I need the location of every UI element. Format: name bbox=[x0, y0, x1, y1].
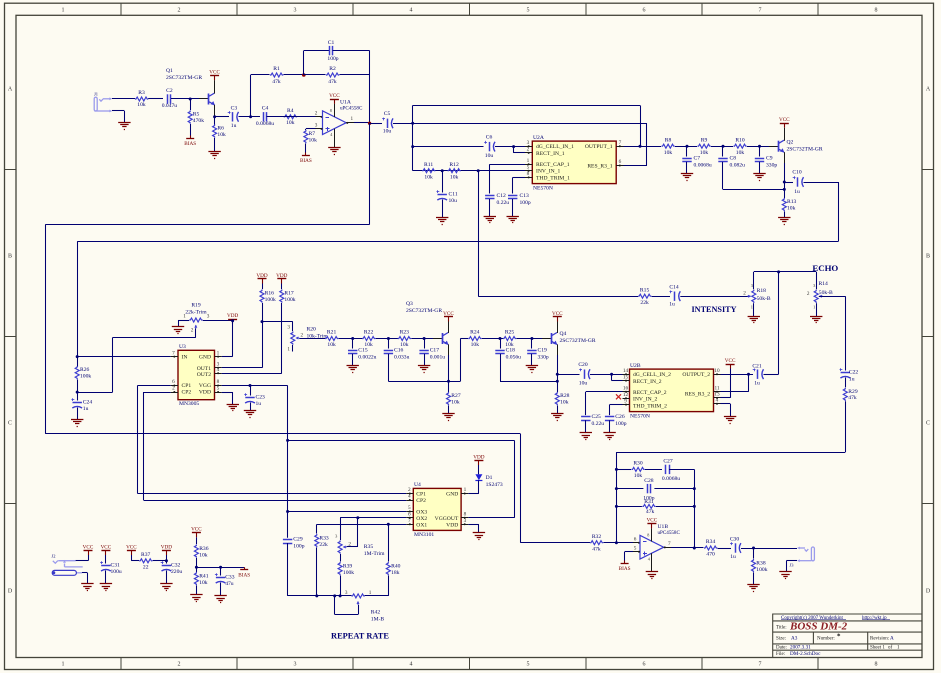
wire VGG to VGGOUT return bbox=[222, 385, 288, 387]
svg-text:10k: 10k bbox=[634, 473, 643, 479]
svg-text:C25: C25 bbox=[592, 414, 602, 420]
resistor R5 bbox=[190, 99, 192, 110]
svg-text:2: 2 bbox=[172, 386, 175, 392]
wire jack sleeve to ground bbox=[786, 560, 797, 562]
wire pin3 bbox=[306, 128, 316, 130]
wire bbox=[753, 272, 755, 289]
svg-text:8: 8 bbox=[527, 171, 530, 177]
wire R24 row corner bbox=[460, 339, 462, 382]
svg-text:R7: R7 bbox=[309, 131, 316, 137]
wire bbox=[376, 338, 398, 340]
svg-text:330p: 330p bbox=[766, 163, 777, 169]
svg-text:10k: 10k bbox=[327, 342, 336, 348]
wire bbox=[680, 296, 748, 298]
svg-text:1u: 1u bbox=[754, 380, 760, 386]
ground bbox=[190, 594, 202, 596]
svg-text:VGG: VGG bbox=[199, 383, 211, 389]
svg-text:U1A: U1A bbox=[340, 99, 351, 105]
svg-text:2: 2 bbox=[807, 291, 810, 297]
capacitor C29 bbox=[283, 539, 292, 541]
wire pin6 riser bbox=[624, 165, 648, 167]
svg-text:0.22u: 0.22u bbox=[592, 421, 605, 427]
wire to pins 3,2 bbox=[495, 146, 525, 148]
svg-text:1: 1 bbox=[62, 662, 65, 668]
svg-text:IN: IN bbox=[182, 355, 188, 361]
capacitor C22 bbox=[841, 372, 850, 374]
wire bbox=[112, 110, 124, 112]
svg-text:J2: J2 bbox=[51, 554, 55, 559]
wire IN row bbox=[77, 356, 171, 358]
svg-text:RECT_IN_1: RECT_IN_1 bbox=[536, 151, 565, 157]
capacitor C26 bbox=[605, 416, 614, 418]
svg-text:4: 4 bbox=[410, 662, 413, 668]
capacitor C9 bbox=[759, 146, 761, 156]
resistor R10 bbox=[733, 144, 746, 148]
capacitor C18 bbox=[500, 339, 502, 349]
svg-text:R30: R30 bbox=[633, 461, 643, 467]
svg-text:0.0068u: 0.0068u bbox=[256, 121, 274, 127]
ground bbox=[418, 365, 430, 367]
wire CP2 run bbox=[144, 392, 171, 394]
svg-text:R38: R38 bbox=[756, 561, 766, 567]
wire bbox=[148, 98, 163, 100]
svg-text:220u: 220u bbox=[171, 569, 182, 575]
wire R19 wiper run bbox=[195, 329, 197, 338]
svg-text:C12: C12 bbox=[497, 193, 507, 199]
ground bbox=[436, 217, 448, 219]
resistor R21 bbox=[325, 337, 338, 341]
svg-text:2: 2 bbox=[315, 111, 318, 117]
wire bbox=[652, 296, 670, 298]
ground bbox=[724, 416, 736, 418]
svg-text:5: 5 bbox=[527, 164, 530, 170]
svg-text:2: 2 bbox=[527, 147, 530, 153]
svg-text:CP2: CP2 bbox=[182, 390, 192, 396]
svg-text:22: 22 bbox=[143, 565, 149, 571]
svg-text:R8: R8 bbox=[665, 137, 672, 143]
svg-text:22k: 22k bbox=[640, 300, 649, 306]
svg-text:100u: 100u bbox=[111, 569, 122, 575]
wire bbox=[741, 548, 797, 550]
wire bbox=[214, 138, 216, 152]
resistor R11 bbox=[422, 169, 435, 173]
pin 4 bbox=[714, 403, 721, 405]
svg-text:R22: R22 bbox=[364, 330, 374, 336]
capacitor C12 bbox=[485, 195, 494, 197]
svg-text:1: 1 bbox=[813, 305, 815, 310]
capacitor C19 bbox=[531, 339, 533, 349]
svg-text:C22: C22 bbox=[849, 370, 859, 376]
pin 4 bbox=[215, 373, 222, 375]
svg-text:R6: R6 bbox=[217, 126, 224, 132]
svg-text:10u: 10u bbox=[383, 128, 392, 134]
wire sleeve bbox=[82, 572, 88, 574]
svg-text:DM-2.SchDoc: DM-2.SchDoc bbox=[790, 651, 821, 657]
BIAS rail bbox=[305, 144, 307, 153]
svg-text:10k: 10k bbox=[450, 174, 459, 180]
resistor R23 bbox=[398, 337, 411, 341]
svg-text:A: A bbox=[890, 636, 894, 642]
svg-text:6: 6 bbox=[408, 512, 411, 518]
svg-text:D: D bbox=[8, 589, 13, 595]
wire bbox=[239, 116, 261, 118]
ground bbox=[208, 151, 220, 153]
svg-text:C23: C23 bbox=[256, 395, 266, 401]
svg-text:VGGOUT: VGGOUT bbox=[435, 516, 459, 522]
ground bbox=[681, 173, 693, 175]
capacitor C32 bbox=[162, 565, 171, 567]
svg-text:D1: D1 bbox=[486, 475, 493, 481]
ground op-amp bbox=[334, 129, 336, 148]
svg-text:Q4: Q4 bbox=[560, 331, 567, 337]
svg-text:5: 5 bbox=[634, 546, 637, 552]
svg-text:3: 3 bbox=[315, 123, 318, 129]
svg-text:A: A bbox=[8, 87, 13, 93]
wire bbox=[214, 80, 216, 93]
svg-text:dG_CELL_IN_1: dG_CELL_IN_1 bbox=[536, 144, 574, 150]
svg-text:OUT2: OUT2 bbox=[197, 372, 211, 378]
wire bbox=[711, 146, 733, 148]
pin 8 bbox=[525, 177, 532, 179]
svg-text:6: 6 bbox=[619, 159, 622, 165]
op-amp U1B bbox=[640, 535, 664, 559]
svg-text:3: 3 bbox=[464, 518, 467, 524]
svg-text:3: 3 bbox=[207, 314, 210, 320]
svg-text:C19: C19 bbox=[538, 348, 548, 354]
svg-text:2007.3.31: 2007.3.31 bbox=[790, 644, 811, 650]
svg-text:100p: 100p bbox=[293, 544, 304, 550]
svg-text:GND: GND bbox=[446, 492, 458, 498]
svg-text:C10: C10 bbox=[792, 170, 802, 176]
ground bbox=[779, 571, 791, 573]
svg-text:8: 8 bbox=[875, 662, 878, 668]
svg-text:VDD: VDD bbox=[161, 544, 172, 550]
ground bbox=[71, 419, 83, 421]
svg-text:10u: 10u bbox=[485, 153, 494, 159]
wire C10 long return bbox=[838, 182, 840, 242]
svg-text:1u: 1u bbox=[849, 377, 855, 383]
wire bbox=[747, 146, 770, 148]
wire VDD to GND pin bbox=[232, 321, 234, 357]
svg-text:8: 8 bbox=[217, 379, 220, 385]
svg-text:R36: R36 bbox=[199, 546, 209, 552]
svg-text:2: 2 bbox=[178, 662, 181, 668]
svg-text:VCC: VCC bbox=[725, 358, 736, 364]
svg-text:5: 5 bbox=[527, 662, 530, 668]
wire OX2 row bbox=[340, 517, 406, 519]
wire echo feedback drop bbox=[845, 296, 847, 370]
svg-text:1u: 1u bbox=[669, 302, 675, 308]
potentiometer R42 1M-B bbox=[351, 594, 364, 598]
wire INV row bbox=[413, 170, 525, 172]
wire C8 return bbox=[722, 162, 724, 190]
svg-text:C8: C8 bbox=[730, 156, 737, 162]
svg-text:12: 12 bbox=[623, 392, 629, 398]
svg-text:0.033u: 0.033u bbox=[394, 355, 410, 361]
svg-text:R16: R16 bbox=[265, 291, 275, 297]
wire VGGOUT return bbox=[468, 517, 514, 519]
wire bbox=[88, 555, 90, 561]
svg-text:9: 9 bbox=[624, 398, 627, 404]
svg-text:1u: 1u bbox=[256, 401, 262, 407]
ground bbox=[347, 365, 359, 367]
wire bbox=[284, 74, 304, 76]
svg-text:ECHO: ECHO bbox=[812, 263, 838, 273]
wire bbox=[196, 558, 198, 572]
svg-text:MN3005: MN3005 bbox=[179, 401, 199, 407]
svg-text:RES_R3_2: RES_R3_2 bbox=[685, 392, 710, 398]
svg-text:R34: R34 bbox=[706, 539, 716, 545]
svg-text:2: 2 bbox=[301, 332, 304, 338]
ground bbox=[100, 583, 112, 585]
wire C18 return bbox=[500, 354, 502, 382]
svg-text:3: 3 bbox=[294, 662, 297, 668]
capacitor C5 bbox=[370, 123, 382, 125]
svg-text:100k: 100k bbox=[284, 297, 295, 303]
wire pin11 riser bbox=[721, 391, 749, 393]
input jack J1 bbox=[94, 97, 109, 111]
svg-text:C13: C13 bbox=[520, 193, 530, 199]
IC U2A NE570N bbox=[532, 141, 616, 184]
svg-text:10k: 10k bbox=[217, 132, 226, 138]
svg-text:7: 7 bbox=[759, 662, 762, 668]
capacitor C23 bbox=[250, 386, 252, 396]
output jack J3 bbox=[800, 547, 815, 561]
svg-text:C29: C29 bbox=[293, 537, 303, 543]
svg-text:C5: C5 bbox=[384, 111, 391, 117]
svg-text:*: * bbox=[837, 633, 841, 641]
wire bbox=[411, 338, 434, 340]
pin 14 bbox=[623, 374, 630, 376]
svg-text:RECT_CAP_2: RECT_CAP_2 bbox=[633, 390, 667, 396]
svg-text:C27: C27 bbox=[663, 459, 673, 465]
wire OUT2 riser bbox=[281, 303, 283, 373]
svg-text:0.22u: 0.22u bbox=[497, 200, 510, 206]
pin 1 bbox=[525, 164, 532, 166]
svg-text:BOSS DM-2: BOSS DM-2 bbox=[789, 621, 848, 633]
pin 1 bbox=[215, 356, 222, 358]
svg-text:U1B: U1B bbox=[658, 524, 669, 530]
wire node to feedback bbox=[250, 75, 252, 117]
svg-text:10k: 10k bbox=[286, 120, 295, 126]
svg-text:470: 470 bbox=[706, 552, 715, 558]
svg-text:R21: R21 bbox=[327, 330, 337, 336]
IC U4 MN3101 bbox=[413, 488, 461, 530]
svg-text:C28: C28 bbox=[644, 478, 654, 484]
svg-text:10u: 10u bbox=[449, 198, 458, 204]
wire C16 return bbox=[388, 354, 390, 382]
svg-text:22k-Trim: 22k-Trim bbox=[185, 310, 207, 316]
wire pin4 to ground bbox=[721, 403, 731, 405]
svg-text:10k: 10k bbox=[199, 580, 208, 586]
wire C1 riser left bbox=[303, 51, 305, 75]
svg-text:7: 7 bbox=[408, 518, 411, 524]
svg-text:0.0022u: 0.0022u bbox=[358, 355, 376, 361]
svg-text:C33: C33 bbox=[225, 575, 235, 581]
svg-text:R26: R26 bbox=[80, 367, 90, 373]
pin 2 bbox=[171, 392, 178, 394]
svg-text:INV_IN_2: INV_IN_2 bbox=[633, 397, 657, 403]
capacitor C13 bbox=[508, 195, 517, 197]
title block bbox=[773, 614, 922, 658]
resistor R24 bbox=[468, 337, 481, 341]
svg-text:R3: R3 bbox=[138, 90, 145, 96]
capacitor C17 bbox=[424, 339, 426, 349]
svg-text:VDD: VDD bbox=[473, 454, 484, 460]
svg-text:10k: 10k bbox=[664, 150, 673, 156]
svg-text:5: 5 bbox=[527, 8, 530, 14]
wire R16 tap to R20 bbox=[262, 321, 293, 323]
svg-text:R23: R23 bbox=[400, 330, 410, 336]
svg-text:5: 5 bbox=[217, 386, 220, 392]
wire INV_IN_1 to intensity row bbox=[478, 171, 480, 297]
svg-text:1u: 1u bbox=[83, 406, 89, 412]
svg-text:B: B bbox=[8, 254, 12, 260]
svg-text:10k: 10k bbox=[787, 205, 796, 211]
svg-text:OX1: OX1 bbox=[416, 523, 427, 529]
svg-text:Date:: Date: bbox=[776, 645, 787, 650]
svg-text:CP1: CP1 bbox=[416, 492, 426, 498]
wire bbox=[517, 338, 544, 340]
svg-text:100p: 100p bbox=[615, 421, 626, 427]
wire bbox=[215, 116, 229, 118]
capacitor C28 bbox=[616, 488, 643, 490]
wire pin1 to C12 bbox=[490, 164, 525, 166]
potentiometer R18 50k-B intensity bbox=[752, 290, 756, 303]
svg-text:R2: R2 bbox=[329, 66, 336, 72]
svg-text:R35: R35 bbox=[364, 544, 374, 550]
resistor R37 bbox=[139, 559, 152, 563]
pin 5 bbox=[406, 511, 413, 513]
wire bbox=[675, 146, 697, 148]
svg-text:47k: 47k bbox=[848, 395, 857, 401]
svg-text:A: A bbox=[926, 87, 931, 93]
resistor R16 bbox=[262, 284, 264, 290]
resistor R34 bbox=[704, 546, 717, 550]
ground R18 bbox=[748, 316, 760, 318]
svg-text:1S2473: 1S2473 bbox=[486, 482, 503, 488]
svg-text:C21: C21 bbox=[752, 363, 762, 369]
wire pin16 to C25 bbox=[586, 391, 623, 393]
transistor Q4 bbox=[551, 333, 553, 344]
resistor R29 bbox=[843, 388, 847, 401]
svg-text:50k-B: 50k-B bbox=[819, 290, 833, 296]
svg-text:R31: R31 bbox=[644, 499, 654, 505]
svg-text:Q3: Q3 bbox=[406, 301, 413, 307]
svg-text:C20: C20 bbox=[578, 362, 588, 368]
svg-text:2SC732TM-GR: 2SC732TM-GR bbox=[406, 308, 442, 314]
svg-text:R40: R40 bbox=[391, 564, 401, 570]
svg-text:Q2: Q2 bbox=[787, 139, 794, 145]
wire echo bus bbox=[754, 271, 816, 273]
wire bbox=[604, 542, 634, 544]
svg-text:6: 6 bbox=[172, 379, 175, 385]
svg-text:10k: 10k bbox=[451, 399, 460, 405]
svg-text:R4: R4 bbox=[287, 108, 294, 114]
resistor R32 bbox=[590, 541, 603, 545]
svg-text:C: C bbox=[926, 421, 930, 427]
wire bbox=[816, 303, 818, 316]
svg-text:8: 8 bbox=[464, 512, 467, 518]
svg-text:1: 1 bbox=[527, 158, 530, 164]
svg-text:MN3101: MN3101 bbox=[414, 532, 434, 538]
ground bbox=[214, 595, 226, 597]
BIAS source bbox=[244, 567, 246, 570]
capacitor C27 bbox=[645, 469, 662, 471]
svg-text:C15: C15 bbox=[358, 348, 368, 354]
svg-text:R27: R27 bbox=[451, 393, 461, 399]
wire bbox=[489, 199, 491, 216]
svg-text:1M-Trim: 1M-Trim bbox=[364, 551, 385, 557]
resistor R28 bbox=[555, 392, 559, 405]
wire VDD pin to ground bbox=[222, 392, 233, 394]
resistor R17 bbox=[281, 284, 283, 290]
svg-text:5: 5 bbox=[408, 505, 411, 511]
potentiometer R35 1M-Trim bbox=[340, 518, 342, 540]
wire bbox=[845, 378, 847, 388]
ground bbox=[526, 365, 538, 367]
ground bbox=[778, 217, 790, 219]
svg-text:C: C bbox=[8, 421, 12, 427]
svg-text:of: of bbox=[888, 645, 893, 650]
wire R20 wiper row bbox=[299, 338, 325, 340]
svg-text:7: 7 bbox=[172, 350, 175, 356]
svg-text:470k: 470k bbox=[193, 118, 204, 124]
capacitor C10 bbox=[784, 182, 793, 184]
capacitor C30 bbox=[735, 543, 737, 552]
svg-text:1: 1 bbox=[62, 8, 65, 14]
resistor R3 bbox=[135, 97, 148, 101]
svg-text:OUTPUT_2: OUTPUT_2 bbox=[682, 372, 710, 378]
wire output bbox=[664, 547, 672, 549]
svg-text:VCC: VCC bbox=[329, 93, 340, 99]
svg-text:100k: 100k bbox=[265, 297, 276, 303]
resistor R4 bbox=[284, 115, 297, 119]
svg-text:http://wkt.jp: http://wkt.jp bbox=[862, 616, 887, 621]
pin 5 bbox=[215, 392, 222, 394]
svg-text:BIAS: BIAS bbox=[184, 141, 196, 147]
svg-text:4: 4 bbox=[716, 397, 719, 403]
svg-text:3: 3 bbox=[294, 8, 297, 14]
svg-text:BIAS: BIAS bbox=[300, 158, 312, 164]
wire R14 wiper to C22 bbox=[819, 296, 846, 298]
svg-text:10k: 10k bbox=[137, 102, 146, 108]
svg-text:GND: GND bbox=[199, 355, 211, 361]
wire bbox=[77, 380, 79, 401]
pin 2 bbox=[525, 152, 532, 154]
pin 8 bbox=[461, 517, 468, 519]
svg-text:VCC: VCC bbox=[126, 544, 137, 550]
pin 9 bbox=[623, 404, 630, 406]
svg-text:10k: 10k bbox=[560, 399, 569, 405]
svg-text:RECT_CAP_1: RECT_CAP_1 bbox=[536, 162, 570, 168]
capacitor C15 bbox=[352, 339, 354, 349]
pin 11 bbox=[714, 391, 721, 393]
svg-text:R9: R9 bbox=[701, 137, 708, 143]
capacitor C25 bbox=[581, 416, 590, 418]
wire bbox=[718, 548, 731, 550]
svg-text:THD_TRIM_2: THD_TRIM_2 bbox=[633, 403, 667, 409]
svg-text:0.0068u: 0.0068u bbox=[694, 163, 712, 169]
svg-text:R32: R32 bbox=[592, 534, 602, 540]
wire bbox=[131, 555, 133, 561]
wire bbox=[764, 374, 779, 376]
svg-text:C30: C30 bbox=[730, 537, 740, 543]
BIAS rail bbox=[624, 552, 626, 561]
svg-text:50k-B: 50k-B bbox=[757, 296, 771, 302]
svg-text:8: 8 bbox=[330, 108, 332, 113]
svg-text:R12: R12 bbox=[449, 162, 459, 168]
